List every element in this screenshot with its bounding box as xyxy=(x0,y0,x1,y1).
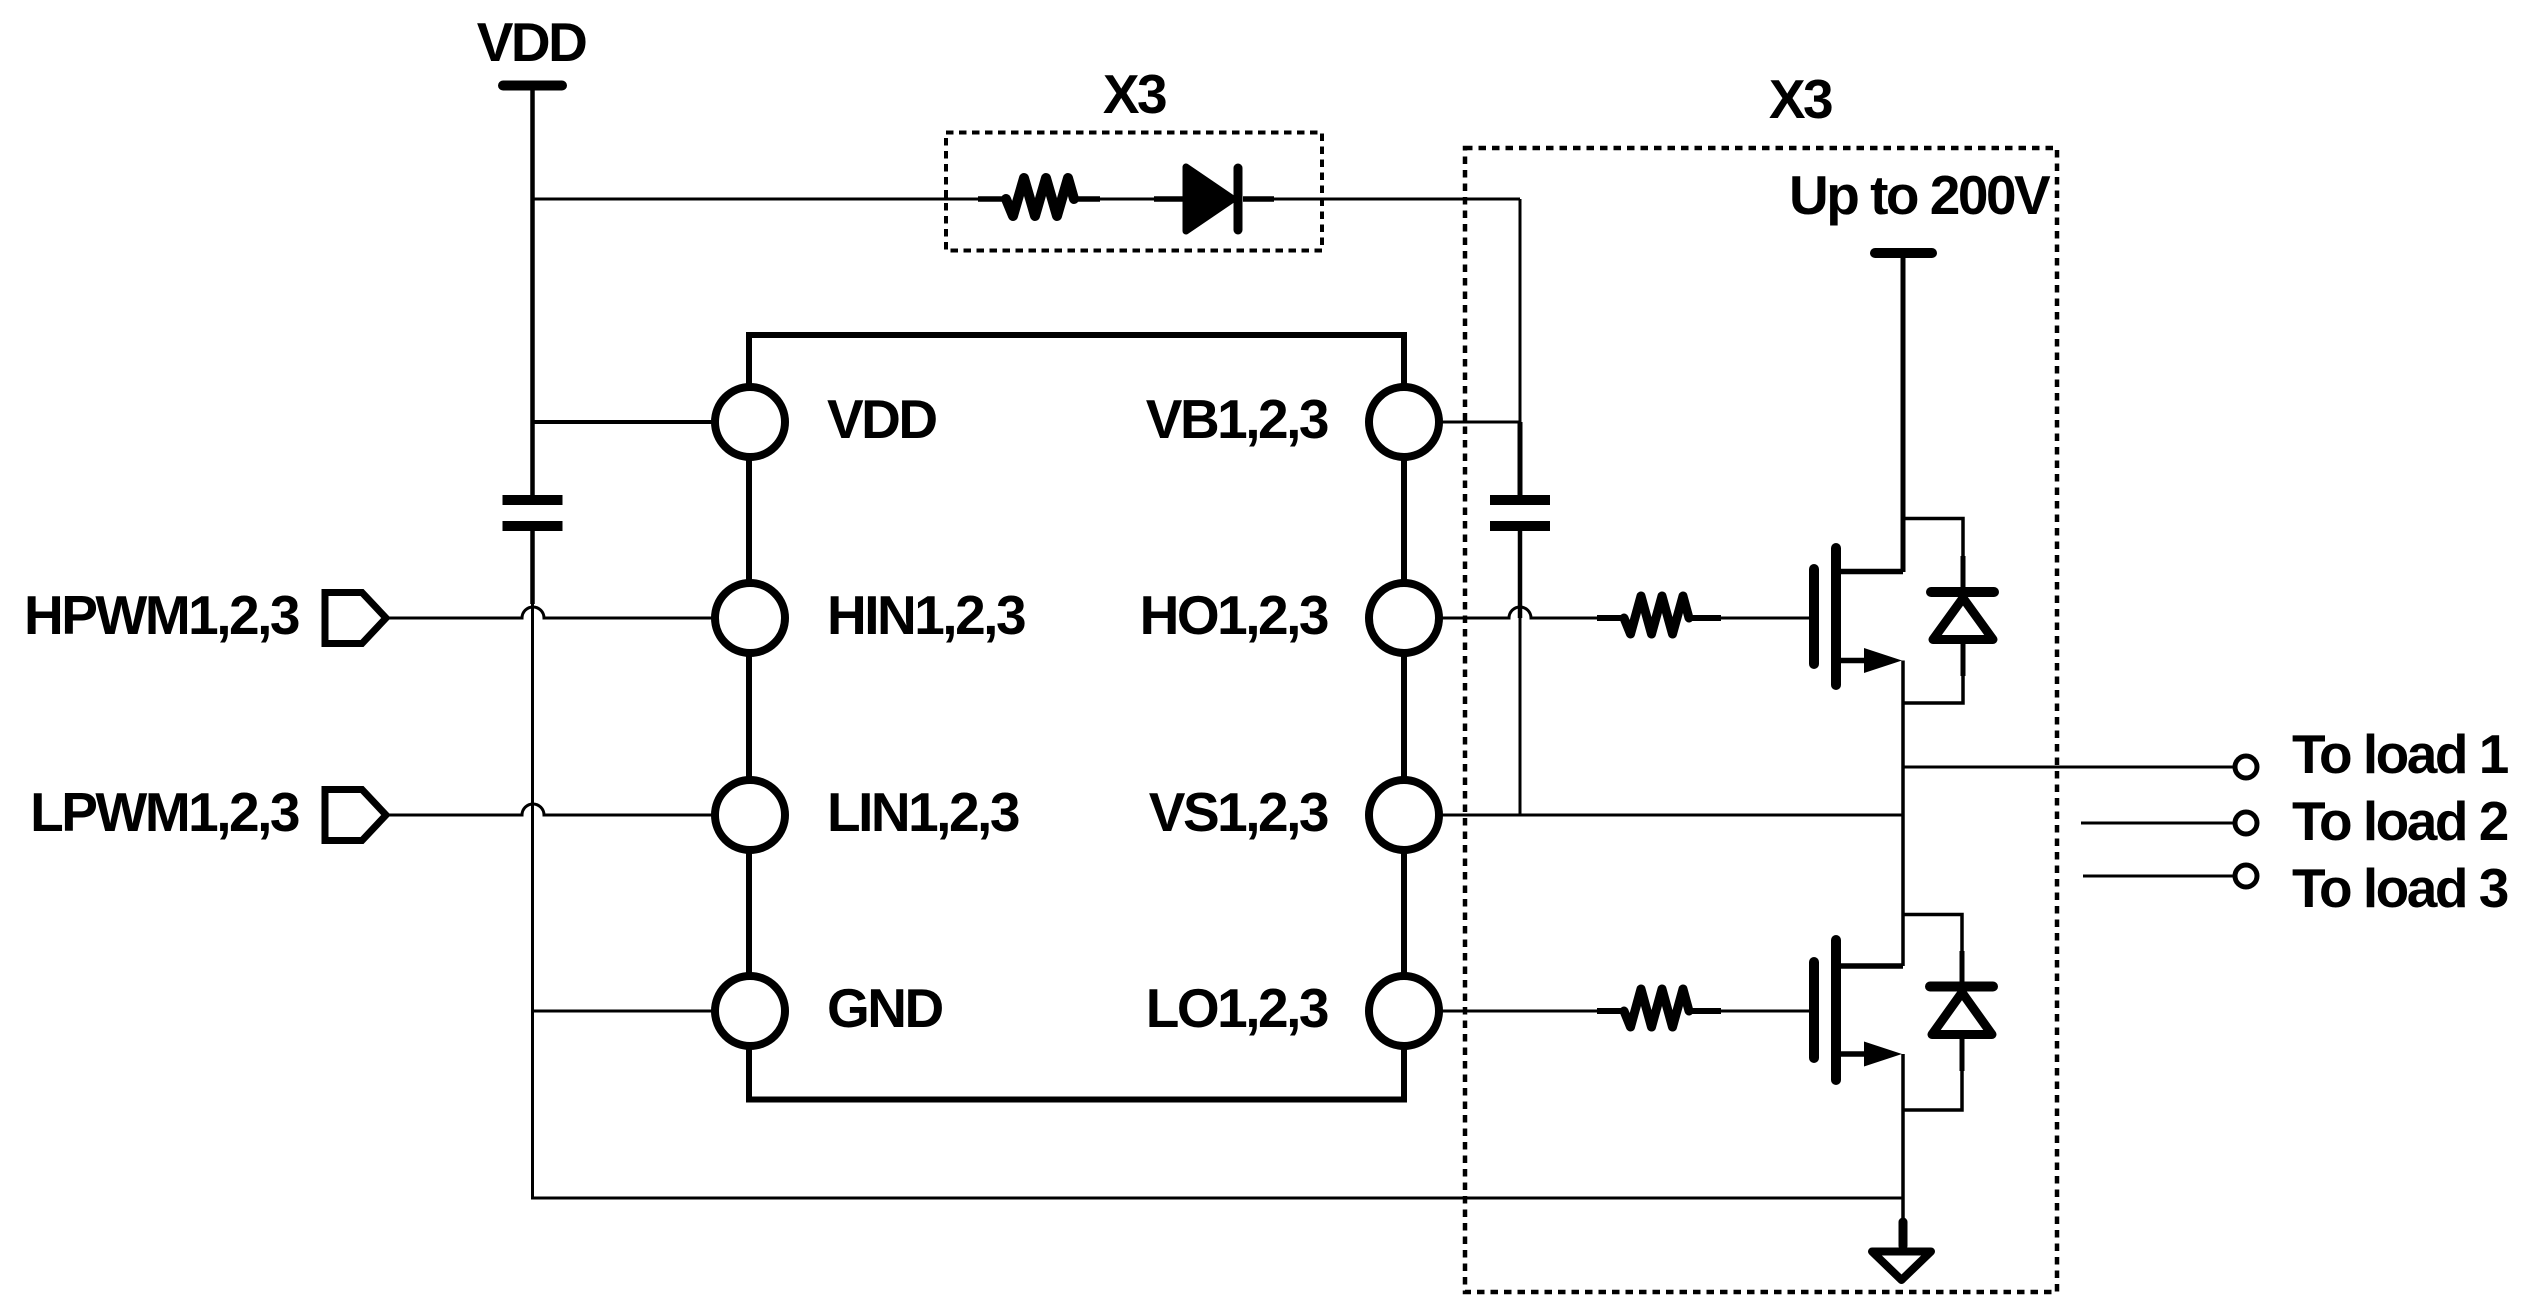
svg-text:HO1,2,3: HO1,2,3 xyxy=(1140,584,1328,646)
svg-text:VDD: VDD xyxy=(827,388,936,450)
svg-text:To load 1: To load 1 xyxy=(2292,723,2509,785)
svg-text:GND: GND xyxy=(827,977,943,1039)
svg-text:HPWM1,2,3: HPWM1,2,3 xyxy=(24,584,299,646)
svg-text:VS1,2,3: VS1,2,3 xyxy=(1149,781,1328,843)
svg-text:X3: X3 xyxy=(1769,68,1832,130)
svg-text:VDD: VDD xyxy=(477,11,586,73)
svg-text:Up to 200V: Up to 200V xyxy=(1789,164,2051,226)
svg-text:HIN1,2,3: HIN1,2,3 xyxy=(827,584,1025,646)
svg-text:LPWM1,2,3: LPWM1,2,3 xyxy=(30,781,299,843)
svg-text:To load 2: To load 2 xyxy=(2292,790,2508,852)
svg-text:To load 3: To load 3 xyxy=(2292,857,2508,919)
svg-text:LIN1,2,3: LIN1,2,3 xyxy=(827,781,1019,843)
svg-text:LO1,2,3: LO1,2,3 xyxy=(1146,977,1328,1039)
svg-text:X3: X3 xyxy=(1103,63,1166,125)
svg-text:VB1,2,3: VB1,2,3 xyxy=(1146,388,1328,450)
